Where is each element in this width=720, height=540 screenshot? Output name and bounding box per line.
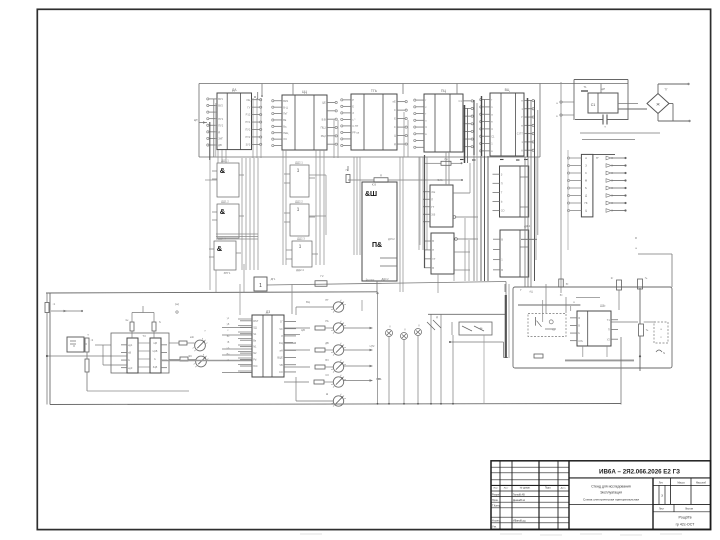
svg-text:ПУ2: ПУ2 [218, 123, 224, 127]
svg-text:ГГ: ГГ [596, 156, 600, 160]
svg-text:Ц: Ц [394, 134, 396, 138]
svg-text:С: С [585, 172, 587, 175]
svg-text:Ц: Ц [585, 210, 587, 213]
svg-text:Разраб.: Разраб. [492, 493, 501, 496]
svg-text:ВИ1: ВИ1 [283, 99, 289, 103]
svg-text:Схема электрическая принципиал: Схема электрическая принципиальная [583, 498, 639, 502]
svg-text:П: П [432, 248, 434, 252]
svg-text:Е: Е [352, 104, 354, 108]
svg-text:В: В [501, 268, 503, 272]
svg-text:Стенд для исследования: Стенд для исследования [591, 485, 631, 489]
svg-text:&: & [217, 244, 223, 253]
svg-text:&Ш: &Ш [365, 191, 377, 198]
svg-text:Д: Д [218, 130, 220, 134]
svg-text:N2: N2 [253, 351, 257, 355]
svg-text:ВЦЕ: ВЦЕ [277, 356, 283, 360]
svg-text:Д3: Д3 [266, 310, 270, 314]
svg-text:Н.контр.: Н.контр. [492, 519, 502, 522]
svg-text:РЦ2: РЦ2 [321, 134, 327, 138]
svg-text:РУ2: РУ2 [246, 135, 251, 139]
svg-text:ЧС: ЧС [279, 327, 283, 331]
svg-text:ДГ1: ДГ1 [271, 277, 276, 281]
svg-text:С1: С1 [491, 134, 495, 138]
svg-text:гцВ: гцВ [153, 342, 157, 345]
svg-text:ДА: ДА [232, 88, 237, 92]
svg-text:Ъ: Ъ [585, 187, 587, 190]
svg-text:Ю: Ю [560, 293, 563, 297]
svg-text:П: П [431, 197, 433, 201]
svg-text:ВЦ: ВЦ [505, 88, 510, 92]
svg-text:Р: Р [352, 98, 354, 102]
svg-text:П: П [501, 181, 503, 185]
svg-text:ДДЬ: ДДЬ [600, 304, 606, 308]
svg-text:В.В: В.В [322, 117, 326, 121]
svg-text:Ц1В: Ц1В [153, 350, 158, 353]
svg-text:ДД2.1: ДД2.1 [295, 161, 303, 165]
svg-text:&: & [220, 207, 226, 216]
svg-text:ЦЦ: ЦЦ [302, 90, 308, 94]
svg-text:ПкГ: ПкГ [283, 112, 288, 116]
svg-text:аН: аН [279, 348, 282, 352]
svg-text:ДД2.3: ДД2.3 [297, 237, 305, 241]
svg-text:Р12: Р12 [246, 113, 251, 117]
svg-text:Лист: Лист [659, 508, 665, 511]
svg-text:ЗИГ: ЗИГ [218, 137, 223, 141]
svg-text:ДД2.4: ДД2.4 [296, 268, 304, 272]
svg-text:ЭА1: ЭА1 [437, 178, 443, 182]
svg-text:СЗ: СЗ [325, 374, 329, 377]
svg-text:ЗПГ1: ЗПГ1 [224, 271, 231, 275]
svg-text:ПЦ: ПЦ [441, 89, 446, 93]
svg-text:Вз: Вз [227, 336, 230, 338]
svg-text:ПУ2: ПУ2 [245, 128, 251, 132]
svg-text:Д: Д [436, 315, 438, 319]
svg-text:иЕ: иЕ [393, 100, 396, 104]
svg-text:РощЗГв: РощЗГв [678, 516, 691, 520]
svg-text:R: R [635, 236, 637, 240]
svg-text:ОС: ОС [283, 137, 287, 141]
svg-text:ДД1.1: ДД1.1 [221, 159, 229, 163]
svg-text:ВУ1: ВУ1 [218, 97, 223, 101]
svg-text:ПТ: ПТ [325, 299, 329, 302]
svg-text:Л: Л [281, 334, 283, 338]
svg-text:П: П [608, 328, 610, 332]
svg-text:С: С [394, 125, 396, 129]
svg-text:ДД2.2: ДД2.2 [295, 200, 303, 204]
svg-text:№ докум.: № докум. [520, 487, 531, 490]
svg-text:ЦТ,: ЦТ, [194, 118, 199, 122]
svg-text:СО: СО [279, 370, 283, 374]
svg-text:В-Ц: В-Ц [283, 105, 288, 109]
svg-text:ДД1.3: ДД1.3 [218, 237, 226, 241]
svg-text:АЦ: АЦ [529, 291, 533, 294]
svg-text:ЦР: ЦР [601, 87, 605, 91]
svg-text:ПУ1: ПУ1 [218, 117, 224, 121]
svg-text:ИВ6А – 2Я2.066.2026 Е2 ГЗ: ИВ6А – 2Я2.066.2026 Е2 ГЗ [599, 469, 680, 476]
svg-text:ГТ: ГТ [431, 205, 434, 209]
svg-text:Листов: Листов [685, 508, 693, 511]
svg-text:S: S [663, 351, 665, 355]
svg-text:ДеменВ ас: ДеменВ ас [513, 499, 526, 502]
svg-text:ПУ1: ПУ1 [245, 120, 251, 124]
svg-text:Дата: Дата [561, 488, 567, 490]
svg-text:З: З [661, 494, 663, 498]
svg-text:Ъ: Ъ [159, 321, 161, 324]
svg-text:ЮЗ: ЮЗ [372, 183, 377, 187]
svg-text:VВ: VВ [279, 363, 283, 367]
svg-text:кВ: кВ [128, 351, 131, 355]
svg-text:гр 42с-ОСТ: гр 42с-ОСТ [676, 523, 696, 527]
svg-text:ТГЬ: ТГЬ [371, 89, 378, 93]
svg-text:ИВаноВ дд: ИВаноВ дд [513, 519, 526, 522]
svg-text:Я: Я [578, 316, 580, 320]
svg-text:ЦЕ: ЦЕ [322, 101, 326, 105]
svg-text:ЗцВ: ЗцВ [153, 366, 158, 369]
svg-text:уВ: уВ [227, 324, 230, 326]
svg-text:УТ: УТ [432, 257, 436, 261]
svg-text:М: М [585, 180, 587, 183]
svg-text:Подп.: Подп. [545, 487, 552, 490]
svg-text:СЛч: СЛч [578, 339, 583, 343]
svg-text:SД: SД [253, 325, 257, 329]
svg-text:Т3: Т3 [142, 334, 146, 338]
svg-text:Пров.: Пров. [492, 499, 499, 502]
svg-text:У2: У2 [607, 337, 611, 341]
svg-text:В: В [432, 239, 434, 243]
svg-text:S1: S1 [253, 332, 257, 336]
svg-text:ГалкоВ АВ: ГалкоВ АВ [513, 493, 525, 496]
svg-text:СО: СО [501, 209, 505, 213]
svg-text:ЦТ2: ЦТ2 [370, 345, 375, 348]
svg-text:РР са: РР са [352, 131, 359, 135]
svg-text:ВУ2: ВУ2 [218, 104, 223, 108]
svg-text:ПЦ1: ПЦ1 [321, 126, 327, 130]
svg-text:Ь: Ь [501, 200, 503, 204]
svg-text:Изм: Изм [493, 488, 498, 490]
svg-text:Вкл-ние: Вкл-ние [366, 280, 375, 282]
svg-text:Лм: Лм [444, 158, 448, 161]
svg-text:кд1: кд1 [128, 343, 133, 347]
svg-text:С.ПТ: С.ПТ [352, 124, 358, 128]
svg-text:РЬ: РЬ [325, 320, 329, 323]
svg-text:(а): (а) [175, 302, 179, 306]
svg-text:ДВ: ДВ [218, 143, 222, 147]
svg-text:1: 1 [259, 283, 262, 289]
svg-text:А: А [521, 148, 523, 152]
svg-text:ПвЦ: ПвЦ [283, 131, 288, 135]
svg-text:ЖС: ЖС [188, 355, 192, 358]
svg-text:жЖ: жЖ [190, 336, 195, 339]
svg-text:Лист: Лист [504, 488, 509, 490]
svg-text:ДУС2: ДУС2 [388, 237, 395, 241]
svg-text:DЦ: DЦ [279, 341, 283, 345]
svg-text:С: С [394, 108, 396, 112]
svg-text:ГУ: ГУ [247, 105, 250, 109]
svg-text:С1: С1 [591, 103, 596, 107]
svg-text:Г2: Г2 [321, 274, 324, 278]
svg-text:ВЧ: ВЧ [325, 359, 329, 362]
svg-text:В: В [501, 237, 503, 241]
svg-text:ВЦ: ВЦ [306, 300, 310, 304]
svg-text:Ь: Ь [128, 358, 130, 362]
svg-text:Масса: Масса [677, 481, 685, 484]
svg-text:Масштаб: Масштаб [696, 482, 707, 484]
svg-text:В: В [578, 324, 580, 328]
svg-text:Д: Д [394, 142, 396, 146]
svg-text:Вц: Вц [283, 124, 287, 128]
svg-text:Эксплуатация: Эксплуатация [600, 491, 622, 495]
svg-text:&: & [220, 166, 226, 175]
svg-text:П&: П& [372, 242, 382, 249]
svg-text:Лит.: Лит. [659, 481, 664, 484]
svg-text:Ь: Ь [578, 331, 580, 335]
svg-text:Рd: Рd [253, 358, 257, 362]
svg-text:ДД1.2: ДД1.2 [221, 200, 229, 204]
svg-text:ДД3.2: ДД3.2 [381, 277, 389, 281]
svg-text:Т.Контр.: Т.Контр. [492, 505, 501, 508]
svg-text:С: С [491, 127, 493, 131]
svg-text:Утв.: Утв. [492, 526, 497, 529]
svg-text:З.Е: З.Е [431, 190, 435, 194]
svg-text:ТГ: ТГ [664, 88, 668, 92]
svg-text:R: R [380, 174, 382, 178]
svg-text:ИЦ: ИЦ [247, 98, 251, 102]
svg-text:ЦВ: ЦВ [301, 328, 305, 332]
svg-text:С: С [425, 125, 427, 129]
svg-text:кд3: кд3 [128, 366, 133, 370]
svg-text:ДВ: ДВ [325, 342, 329, 345]
svg-text:З.В: З.В [431, 212, 435, 216]
svg-text:ЮС: ЮС [253, 364, 258, 368]
svg-text:Е: Е [394, 117, 396, 121]
svg-text:N1: N1 [253, 345, 257, 349]
svg-text:ЗУЗ: ЗУЗ [246, 142, 251, 146]
svg-text:С.ПТ: С.ПТ [517, 132, 523, 136]
svg-text:С1: С1 [458, 99, 462, 103]
svg-text:В: В [432, 266, 434, 270]
svg-text:RST: RST [253, 319, 259, 323]
